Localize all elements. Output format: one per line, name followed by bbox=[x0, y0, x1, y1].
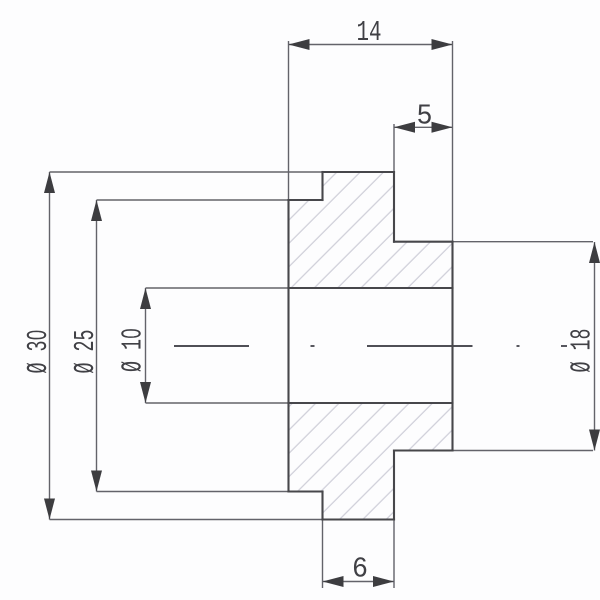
arrow Ø25 top bbox=[91, 200, 102, 221]
svg-text:6: 6 bbox=[352, 553, 368, 586]
arrow Ø25 bottom bbox=[91, 471, 102, 492]
ext line 6 right bbox=[393, 520, 395, 589]
svg-text:5: 5 bbox=[417, 100, 433, 133]
dim line 5 bbox=[394, 126, 453, 128]
bore bottom edge bbox=[289, 402, 453, 404]
dim line 6 bbox=[323, 581, 395, 583]
arrow Ø10 top bbox=[140, 288, 151, 309]
step up to flange bbox=[321, 172, 323, 200]
ext line 6 left bbox=[322, 520, 324, 589]
ext line 14 left bbox=[288, 41, 290, 200]
ext line Ø18 bottom bbox=[453, 450, 594, 452]
ext line Ø30 bottom bbox=[50, 519, 323, 521]
bore top edge bbox=[289, 287, 453, 289]
ext line Ø10 bottom bbox=[146, 402, 289, 404]
plain-zero covers (hide Liberation Mono zero dots) bbox=[33, 332, 40, 337]
dim line Ø18 bbox=[594, 242, 596, 451]
ext line Ø10 top bbox=[146, 287, 289, 289]
flange right face upper bbox=[393, 172, 395, 242]
svg-text:14: 14 bbox=[357, 16, 382, 49]
ext line 14/5 right bbox=[452, 41, 454, 242]
left face bbox=[287, 200, 289, 492]
ext line Ø25 top bbox=[97, 199, 289, 201]
centerline (dash-dot axis) bbox=[174, 345, 567, 347]
arrow Ø10 bottom bbox=[140, 382, 151, 403]
ext line Ø25 bottom bbox=[97, 491, 289, 493]
svg-text:Ø 25: Ø 25 bbox=[69, 330, 102, 374]
dim line Ø30 bbox=[49, 172, 51, 520]
arrow 5 left bbox=[394, 122, 415, 133]
arrow 6 left bbox=[323, 576, 344, 587]
arrow 5 right bbox=[432, 122, 453, 133]
part outline (thick visible edges) bbox=[289, 172, 453, 520]
ext line Ø18 top bbox=[453, 241, 594, 243]
boss bottom edge bbox=[394, 449, 453, 451]
dim line Ø10 bbox=[145, 288, 147, 403]
step down bbox=[321, 492, 323, 520]
ext line 5 left bbox=[393, 124, 395, 172]
dim line 14 bbox=[289, 44, 453, 46]
Ø25 top edge bbox=[289, 199, 323, 201]
flange top edge bbox=[323, 171, 395, 173]
arrow Ø30 top bbox=[44, 172, 55, 193]
arrow Ø18 top bbox=[589, 242, 600, 263]
flange bottom edge bbox=[323, 518, 395, 520]
Ø25 bottom edge bbox=[289, 490, 323, 492]
arrow 14 right bbox=[432, 39, 453, 50]
boss top edge bbox=[394, 241, 453, 243]
right face bbox=[451, 242, 453, 451]
arrow 6 right bbox=[373, 576, 394, 587]
dim line Ø25 bbox=[96, 200, 98, 492]
ext line Ø30 top bbox=[50, 171, 323, 173]
svg-text:Ø 18: Ø 18 bbox=[566, 329, 599, 373]
flange right face lower bbox=[393, 451, 395, 520]
arrow 14 left bbox=[289, 39, 310, 50]
arrow Ø30 bottom bbox=[44, 499, 55, 520]
arrow Ø18 bottom bbox=[589, 430, 600, 451]
section hatching of part (flanged bushing cross-section) bbox=[289, 172, 453, 520]
